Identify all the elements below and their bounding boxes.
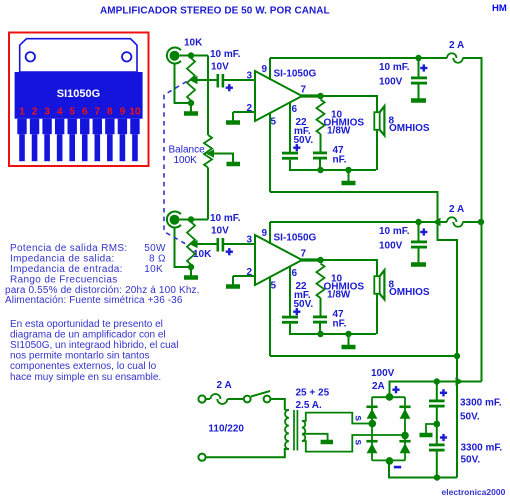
speaker 8 OMHIOS CH1 xyxy=(321,96,378,112)
crossing arrow at fuse 2 xyxy=(433,218,441,226)
svg-text:OMHIOS: OMHIOS xyxy=(389,123,430,134)
svg-text:7: 7 xyxy=(301,85,307,96)
transformer core xyxy=(294,410,297,451)
junction xyxy=(454,353,460,359)
IC package SI1050G pictorial xyxy=(9,33,149,167)
wire fuse2 to rail xyxy=(467,221,482,223)
fuse 2A CH2 xyxy=(445,221,448,223)
potentiometer 10K CH2 xyxy=(187,222,195,265)
ground xyxy=(348,170,350,183)
svg-text:s: s xyxy=(352,415,364,421)
svg-text:100K: 100K xyxy=(174,155,198,166)
plus cap1 xyxy=(440,392,447,394)
potentiometer 10K CH1 xyxy=(187,58,195,101)
svg-text:8 Ω: 8 Ω xyxy=(149,254,166,265)
svg-text:nos permite montarlo sin tanto: nos permite montarlo sin tantos xyxy=(10,351,150,362)
svg-text:9: 9 xyxy=(262,228,268,239)
wire xyxy=(180,55,209,57)
svg-text:3: 3 xyxy=(246,235,252,246)
junction AC2 xyxy=(401,432,409,440)
junction xyxy=(415,219,421,225)
junction - node xyxy=(386,457,394,465)
junction xyxy=(317,167,323,173)
svg-text:8: 8 xyxy=(107,106,113,118)
svg-text:1/8W: 1/8W xyxy=(327,290,351,301)
junction + node xyxy=(386,393,394,401)
svg-text:10K: 10K xyxy=(184,38,203,49)
diode D4 xyxy=(399,440,410,443)
svg-text:3300 mF.: 3300 mF. xyxy=(460,398,502,409)
svg-text:nF.: nF. xyxy=(333,155,347,166)
svg-text:Alimentación: Fuente simétrica: Alimentación: Fuente simétrica +36 -36 xyxy=(5,295,183,306)
potentiometer Balance 100K xyxy=(204,135,212,168)
svg-text:2 A: 2 A xyxy=(449,40,464,51)
center tap xyxy=(303,434,328,440)
svg-text:HM: HM xyxy=(492,3,507,14)
wire xyxy=(271,399,285,410)
wire return rail xyxy=(290,333,376,335)
svg-text:25 + 25: 25 + 25 xyxy=(296,388,330,399)
ground xyxy=(348,334,350,347)
svg-text:2 A: 2 A xyxy=(449,204,464,215)
wire to pin 3 xyxy=(224,79,255,81)
AC terminal top xyxy=(198,395,205,402)
ground xyxy=(227,162,241,167)
wire pin 2 xyxy=(233,111,255,113)
svg-text:4: 4 xyxy=(57,106,63,118)
svg-text:Impedancia de salida:: Impedancia de salida: xyxy=(10,254,115,265)
transformer primary xyxy=(285,410,289,449)
svg-text:9: 9 xyxy=(262,64,268,75)
capacitor 47nF CH1 xyxy=(313,152,327,155)
svg-text:Potencia de salida RMS:: Potencia de salida RMS: xyxy=(10,243,128,254)
svg-text:9: 9 xyxy=(119,106,125,118)
junction xyxy=(188,52,194,58)
plus polarity xyxy=(226,87,233,89)
wire output pin 7 xyxy=(301,258,321,261)
op-amp SI-1050G CH1 xyxy=(255,71,302,121)
ground xyxy=(232,112,234,123)
junction xyxy=(188,216,194,222)
svg-text:Impedancia de entrada:: Impedancia de entrada: xyxy=(10,264,123,275)
junction xyxy=(345,331,351,337)
diode D3 xyxy=(366,440,377,443)
capacitor 10mF 10V CH2 xyxy=(217,238,220,252)
wire to pin 3 xyxy=(224,243,255,245)
svg-text:10K: 10K xyxy=(193,249,212,260)
capacitor 10mF 10V CH1 xyxy=(217,74,220,88)
svg-text:En esta oportunidad te present: En esta oportunidad te presento el xyxy=(10,319,163,330)
svg-text:componentes externos, lo cual: componentes externos, lo cual lo xyxy=(10,361,157,372)
svg-text:nF.: nF. xyxy=(333,319,347,330)
svg-text:3: 3 xyxy=(246,71,252,82)
svg-text:10 mF.: 10 mF. xyxy=(210,49,241,60)
capacitor 10mF 100V CH1 xyxy=(418,58,420,77)
svg-text:OMHIOS: OMHIOS xyxy=(389,287,430,298)
svg-text:10V: 10V xyxy=(211,62,229,73)
ground mid xyxy=(426,424,437,433)
svg-text:1/8W: 1/8W xyxy=(327,126,351,137)
svg-text:100V: 100V xyxy=(379,77,403,88)
capacitor 22mF 50V CH2 xyxy=(282,316,298,319)
capacitor 10mF 100V CH2 xyxy=(418,222,420,241)
crossing arrow at +rail xyxy=(456,377,464,385)
op-amp SI-1050G CH2 xyxy=(255,235,302,285)
capacitor 22mF 50V CH1 xyxy=(282,152,298,155)
capacitor 3300mF 50V top xyxy=(436,382,438,400)
svg-text:50V.: 50V. xyxy=(461,455,481,466)
svg-text:10 mF.: 10 mF. xyxy=(379,62,410,73)
svg-text:7: 7 xyxy=(94,106,100,118)
junction xyxy=(478,219,484,225)
switch S1 xyxy=(244,396,251,403)
wire pin 5 xyxy=(269,114,271,193)
junction xyxy=(434,474,440,480)
fuse 2A mains xyxy=(206,398,210,400)
svg-text:para 0.55% de distorción: 20hz: para 0.55% de distorción: 20hz á 100 Khz… xyxy=(5,285,200,296)
wire xyxy=(175,228,189,267)
wire return rail xyxy=(290,169,376,171)
svg-text:2.5 A.: 2.5 A. xyxy=(296,400,323,411)
svg-text:7: 7 xyxy=(301,249,307,260)
svg-text:electronica2000: electronica2000 xyxy=(442,487,506,497)
svg-text:SI1050G: SI1050G xyxy=(57,88,100,100)
wire xyxy=(180,219,209,221)
plus bridge xyxy=(392,389,399,391)
svg-text:SI-1050G: SI-1050G xyxy=(274,69,317,80)
wire xyxy=(230,398,244,400)
capacitor 47nF CH2 xyxy=(313,316,327,319)
svg-text:10: 10 xyxy=(129,106,141,118)
balance wiper xyxy=(206,149,214,157)
wire + rail xyxy=(390,382,482,398)
junction xyxy=(317,257,323,263)
svg-text:10V: 10V xyxy=(211,226,229,237)
plus cap2 xyxy=(440,436,447,438)
resistor 10 OHMIOS 1/8W CH2 xyxy=(317,264,325,299)
AC terminal bottom xyxy=(198,454,205,461)
input jack CH1 xyxy=(167,48,181,64)
wire pin 6 xyxy=(289,103,291,153)
svg-text:6: 6 xyxy=(292,104,298,115)
junction xyxy=(317,93,323,99)
diode D1 xyxy=(366,405,377,408)
minus bridge xyxy=(394,466,401,469)
pot wiper xyxy=(190,76,198,84)
svg-text:hace muy simple en su ensamble: hace muy simple en su ensamble. xyxy=(10,372,161,383)
svg-text:6: 6 xyxy=(292,268,298,279)
capacitor 3300mF 50V bottom xyxy=(436,424,438,444)
wire to balance xyxy=(207,56,209,136)
ground xyxy=(190,269,192,278)
junction AC1 xyxy=(369,420,377,428)
fuse 2A CH1 xyxy=(445,57,448,59)
svg-text:10 mF.: 10 mF. xyxy=(379,226,410,237)
svg-text:50W: 50W xyxy=(144,243,166,254)
ground xyxy=(190,105,192,114)
wire +V rail xyxy=(270,221,445,223)
wire pin 2 xyxy=(233,275,255,277)
speaker 8 OMHIOS CH2 xyxy=(321,260,378,276)
wire pin 6 xyxy=(289,267,291,317)
transformer secondary 25+25 xyxy=(302,421,305,441)
resistor 10 OHMIOS 1/8W CH1 xyxy=(317,100,325,135)
svg-text:2A: 2A xyxy=(372,381,385,392)
svg-text:3: 3 xyxy=(44,106,50,118)
junction xyxy=(317,331,323,337)
svg-text:10K: 10K xyxy=(144,264,163,275)
secondary bottom lead xyxy=(302,435,405,452)
wire balance to ch2 xyxy=(207,168,209,220)
junction xyxy=(345,167,351,173)
wire pin 5 xyxy=(269,278,271,357)
svg-text:s: s xyxy=(352,439,364,445)
svg-text:6: 6 xyxy=(82,106,88,118)
secondary top lead xyxy=(302,413,371,424)
diode D2 xyxy=(399,405,410,408)
wire pin 9 xyxy=(269,222,271,244)
wire ch1 negative return xyxy=(270,192,457,478)
wire xyxy=(175,64,189,103)
svg-text:50V.: 50V. xyxy=(460,412,480,423)
svg-text:1: 1 xyxy=(19,106,25,118)
svg-text:10 mF.: 10 mF. xyxy=(210,213,241,224)
wire +V right rail xyxy=(467,58,482,382)
junction xyxy=(433,421,440,428)
svg-text:100V: 100V xyxy=(379,241,403,252)
wire - rail xyxy=(389,460,457,477)
svg-text:110/220: 110/220 xyxy=(208,424,244,435)
input jack CH2 xyxy=(167,212,181,228)
svg-text:Rango de Frecuencias: Rango de Frecuencias xyxy=(10,274,118,285)
svg-text:diagrama de un amplificador co: diagrama de un amplificador con el xyxy=(10,329,166,340)
svg-text:100V: 100V xyxy=(371,368,395,379)
wire pin 9 xyxy=(269,58,271,80)
svg-text:5: 5 xyxy=(271,117,277,128)
pot wiper xyxy=(190,240,198,248)
dashed gang link xyxy=(164,82,188,246)
svg-text:2 A: 2 A xyxy=(217,380,232,391)
svg-text:SI1050G, un integraod hìbrido,: SI1050G, un integraod hìbrido, el cual xyxy=(10,340,178,351)
plus polarity xyxy=(226,251,233,253)
junction xyxy=(415,55,421,61)
ground xyxy=(232,276,234,287)
svg-text:3300 mF.: 3300 mF. xyxy=(461,443,503,454)
svg-text:AMPLIFICADOR STEREO DE 50 W. P: AMPLIFICADOR STEREO DE 50 W. POR CANAL xyxy=(100,6,330,17)
wire output pin 7 xyxy=(301,94,321,97)
svg-text:SI-1050G: SI-1050G xyxy=(274,233,317,244)
junction xyxy=(434,378,440,384)
bridge rectifier frame xyxy=(372,396,405,398)
svg-text:5: 5 xyxy=(271,281,277,292)
svg-text:2: 2 xyxy=(32,106,38,118)
wire ch2 negative return xyxy=(270,355,457,357)
svg-text:5: 5 xyxy=(69,106,75,118)
wire +V rail xyxy=(270,57,445,59)
